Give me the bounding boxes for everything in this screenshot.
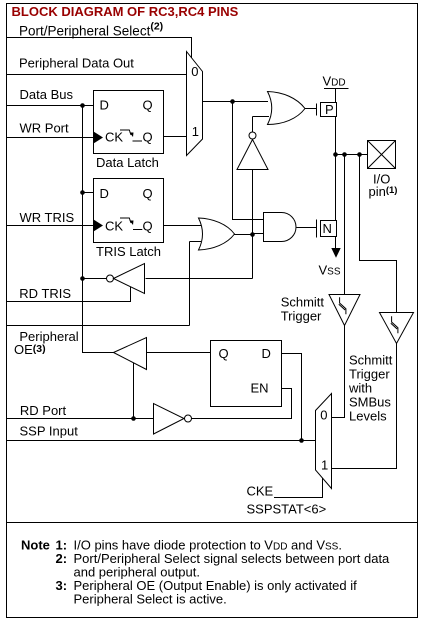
svg-text:Peripheral Select is active.: Peripheral Select is active.: [74, 592, 227, 607]
svg-text:1: 1: [192, 124, 199, 139]
svg-text:D: D: [100, 98, 109, 113]
svg-text:Q: Q: [219, 346, 229, 361]
svg-text:Peripheral Data Out: Peripheral Data Out: [19, 56, 134, 71]
svg-text:Schmitt: Schmitt: [281, 295, 325, 310]
svg-text:N: N: [323, 221, 332, 236]
svg-text:Trigger: Trigger: [349, 367, 390, 382]
svg-text:1: 1: [321, 458, 328, 473]
svg-text:Data Bus: Data Bus: [20, 87, 74, 102]
svg-text:Q: Q: [143, 219, 153, 234]
svg-text:Port/Peripheral Select(2): Port/Peripheral Select(2): [19, 21, 163, 39]
svg-text:BLOCK DIAGRAM OF RC3,RC4 PINS: BLOCK DIAGRAM OF RC3,RC4 PINS: [12, 4, 239, 19]
svg-text:Data Latch: Data Latch: [96, 155, 159, 170]
svg-text:3:: 3:: [56, 578, 68, 593]
svg-text:0: 0: [320, 408, 327, 423]
svg-text:D: D: [100, 186, 109, 201]
svg-text:Note: Note: [21, 538, 50, 553]
svg-text:Q: Q: [143, 98, 153, 113]
svg-text:TRIS Latch: TRIS Latch: [96, 244, 161, 259]
svg-text:Levels: Levels: [349, 409, 387, 424]
svg-text:2:: 2:: [56, 551, 68, 566]
svg-text:CK: CK: [105, 219, 123, 234]
svg-text:SMBus: SMBus: [349, 395, 391, 410]
svg-text:RD TRIS: RD TRIS: [19, 286, 71, 301]
svg-text:WR TRIS: WR TRIS: [20, 210, 75, 225]
svg-text:SSPSTAT<6>: SSPSTAT<6>: [247, 502, 327, 517]
svg-text:CK: CK: [105, 130, 123, 145]
svg-text:Q: Q: [143, 130, 153, 145]
svg-text:CKE: CKE: [247, 484, 274, 499]
svg-text:Q: Q: [143, 186, 153, 201]
svg-text:with: with: [348, 381, 372, 396]
svg-text:P: P: [325, 102, 334, 117]
svg-text:Schmitt: Schmitt: [349, 353, 393, 368]
svg-text:Trigger: Trigger: [281, 309, 322, 324]
svg-text:EN: EN: [251, 381, 269, 396]
svg-text:WR Port: WR Port: [20, 120, 70, 135]
svg-text:D: D: [262, 346, 271, 361]
svg-text:0: 0: [191, 64, 198, 79]
svg-text:RD Port: RD Port: [20, 403, 67, 418]
svg-text:OE(3): OE(3): [14, 342, 46, 357]
svg-text:SSP Input: SSP Input: [20, 423, 79, 438]
